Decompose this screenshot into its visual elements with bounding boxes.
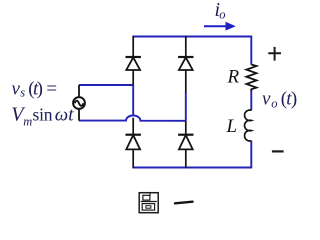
wire left column black segments bbox=[132, 36, 134, 169]
wire right branch upper bbox=[250, 36, 252, 65]
ac source vs bbox=[73, 85, 85, 121]
wire right column black segments bbox=[185, 36, 187, 169]
plus sign bbox=[268, 47, 281, 61]
wire top rail bbox=[133, 36, 251, 38]
wire source bottom with hop over left column bbox=[79, 115, 186, 120]
caption 圖 (drawn strokes) bbox=[139, 193, 158, 213]
svg-text:(t): (t) bbox=[281, 88, 298, 109]
svg-text:o: o bbox=[271, 96, 277, 110]
caption 一 bbox=[175, 202, 193, 204]
wire right branch middle bbox=[250, 91, 252, 111]
svg-text:s: s bbox=[20, 85, 25, 99]
svg-text:L: L bbox=[226, 116, 238, 137]
wire right branch lower bbox=[250, 141, 252, 169]
diode D3 (top-right) bbox=[178, 57, 193, 70]
resistor R bbox=[246, 65, 256, 92]
diode D1 (top-left) bbox=[126, 57, 141, 70]
svg-text:=: = bbox=[46, 79, 57, 100]
svg-text:v: v bbox=[12, 79, 21, 100]
wire left column blue mid segment bbox=[132, 85, 134, 116]
wire bottom rail bbox=[133, 167, 251, 169]
svg-text:v: v bbox=[262, 88, 271, 109]
current arrow io bbox=[204, 22, 236, 31]
diode D4 (bottom-left) bbox=[126, 135, 141, 150]
diode D2 (bottom-right) bbox=[178, 135, 193, 150]
svg-text:R: R bbox=[227, 67, 240, 88]
svg-text:o: o bbox=[219, 8, 225, 22]
inductor L bbox=[245, 110, 252, 141]
minus sign bbox=[272, 150, 284, 152]
wire right column blue mid segment bbox=[185, 92, 187, 121]
wire source top bbox=[79, 84, 133, 86]
svg-text:sin: sin bbox=[33, 105, 53, 125]
svg-text:m: m bbox=[23, 114, 32, 128]
svg-text:ωt: ωt bbox=[55, 105, 74, 126]
svg-text:(t): (t) bbox=[28, 79, 43, 100]
